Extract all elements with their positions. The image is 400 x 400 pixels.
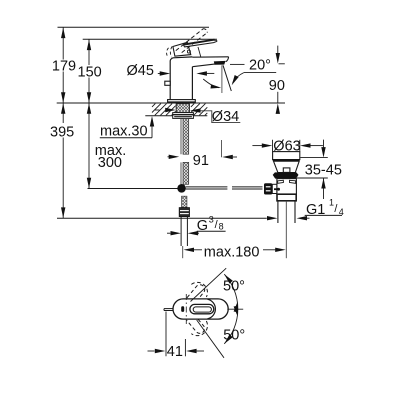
G3/8 centerline extension <box>182 246 184 258</box>
dim 91 left arrow <box>168 156 170 158</box>
jet vertical reference line <box>221 65 223 93</box>
shank thread <box>176 104 189 113</box>
hose-rod junction dot <box>177 184 186 193</box>
plan: lever grip <box>190 304 214 313</box>
extension line: top of lever (179 ref) <box>58 26 210 28</box>
set screw <box>274 188 279 190</box>
extension line: bottom (395 ref) <box>57 217 267 219</box>
plan: faucet outline <box>173 299 228 319</box>
dim 41 arrows <box>148 350 155 352</box>
dim G1-1/4 arrows <box>267 216 278 220</box>
dim 90 arrows <box>276 53 280 64</box>
dim line max.300 (x=89 lower) <box>88 103 90 189</box>
spout underside <box>192 63 220 66</box>
dim 35-45 line <box>323 140 325 148</box>
svg-text:20°: 20° <box>249 57 271 73</box>
aerator <box>214 61 226 65</box>
dim line 395 (x=63.2 lower) <box>62 103 64 123</box>
lever swing dashed arcs <box>167 48 169 57</box>
dim 150 arrows <box>87 40 91 51</box>
countertop hatching <box>152 104 155 107</box>
drain nut <box>277 194 296 201</box>
20deg leader <box>230 63 245 65</box>
dim Ø45 left arrow <box>158 73 163 75</box>
svg-text:max.30: max.30 <box>100 123 148 139</box>
drain tailpipe <box>277 201 279 223</box>
dim 91 right arrow <box>222 155 233 159</box>
drain plug disc <box>273 152 300 160</box>
plan: dashed lever down <box>180 308 211 340</box>
plan: arc arrows <box>224 274 233 283</box>
svg-text:91: 91 <box>193 153 209 169</box>
rod connector <box>272 184 277 193</box>
svg-text:Ø34: Ø34 <box>212 109 239 125</box>
faucet body outline <box>168 57 193 100</box>
svg-text:Ø45: Ø45 <box>127 63 154 79</box>
plan: knob tick <box>181 306 184 312</box>
plan: 50deg arcs <box>224 274 238 344</box>
drain Ø63 extension lines <box>272 140 274 152</box>
boss detail line <box>198 47 201 57</box>
countertop underside line <box>145 115 207 117</box>
dim 395 arrows <box>61 103 65 114</box>
plan: body end arc <box>207 299 215 319</box>
dim 90 line <box>277 46 279 54</box>
20deg arc right <box>233 73 244 83</box>
plan: rod stub <box>164 308 174 310</box>
dim max.300 arrows <box>87 103 91 114</box>
dim 179 arrows <box>61 28 65 38</box>
svg-text:3: 3 <box>209 214 214 224</box>
flexible hose lower <box>180 162 182 184</box>
svg-text:1: 1 <box>329 198 334 208</box>
dim max.30 arrow <box>151 127 153 138</box>
lever raised dashed <box>176 29 204 51</box>
drain pipe centerline <box>285 201 287 258</box>
dim Ø34 arrows <box>155 109 160 111</box>
countertop surface line <box>57 102 285 104</box>
lever blade <box>184 40 217 47</box>
spout top edge <box>192 56 228 58</box>
dim line 179 (x=63.2 upper) <box>62 27 64 59</box>
spout tip curve <box>226 57 229 62</box>
shank nut <box>173 113 194 119</box>
dim 35-45 arrows <box>321 147 325 158</box>
hose braid below dot <box>182 196 187 207</box>
flexible hose upper <box>180 118 182 154</box>
svg-text:41: 41 <box>167 344 183 360</box>
plan: dashed lever up <box>180 278 211 310</box>
svg-text:8: 8 <box>219 222 224 232</box>
pop-up rod <box>186 186 228 188</box>
dim max.180 line <box>193 249 202 251</box>
dim G3/8 arrows <box>167 232 170 234</box>
svg-text:max.180: max.180 <box>204 244 260 260</box>
drain body <box>277 179 297 195</box>
drain lift guide box <box>283 168 290 173</box>
dim Ø45 right arrow <box>196 71 207 75</box>
20deg arc left <box>203 79 219 88</box>
svg-text:50°: 50° <box>223 327 245 343</box>
dim Ø63 arrows <box>252 145 262 147</box>
drain neck <box>274 161 300 172</box>
G3/8 nut <box>179 208 189 217</box>
dim 41 extension lines <box>165 312 167 357</box>
dim max.180 arrows <box>184 248 195 252</box>
extension line: spout top (150 ref) <box>83 38 217 40</box>
svg-text:50°: 50° <box>223 278 245 294</box>
boss detail circle <box>187 50 190 53</box>
lever boss <box>173 42 191 56</box>
plan: axis extension <box>227 308 243 310</box>
jet 20deg slant line <box>223 65 231 91</box>
plan: 50deg line down <box>197 320 224 358</box>
svg-text:150: 150 <box>78 65 102 81</box>
G3/8 thread tube <box>180 217 182 246</box>
rod knob <box>264 183 272 194</box>
extension line: hose lower limit (max.300 ref) <box>88 188 178 190</box>
svg-text:395: 395 <box>50 124 74 140</box>
dim 90 tick <box>279 63 285 65</box>
pop-up rod knob on body <box>165 81 170 85</box>
drain seal flange <box>273 172 299 178</box>
plan: 50deg line up <box>191 268 227 301</box>
drain overflow slots <box>278 180 284 183</box>
plan: centerline <box>185 294 187 324</box>
svg-text:35-45: 35-45 <box>305 162 342 178</box>
svg-text:90: 90 <box>269 78 285 94</box>
svg-text:300: 300 <box>98 155 122 171</box>
faucet base plate <box>168 100 196 103</box>
dim line 150 (x=89 upper) <box>88 39 90 65</box>
svg-text:179: 179 <box>52 59 76 75</box>
dim 35-45 ticks <box>300 157 328 159</box>
